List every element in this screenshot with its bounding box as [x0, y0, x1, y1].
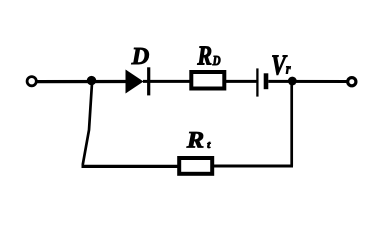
wire left terminal to diode: [37, 80, 126, 83]
node B junction dot: [288, 77, 297, 86]
battery Vr short thick plate: [264, 73, 269, 89]
resistor RD body: [191, 72, 224, 89]
diode D cathode bar: [147, 67, 150, 95]
svg-text:RD: RD: [197, 42, 221, 72]
svg-text:Vr: Vr: [271, 50, 291, 81]
battery Vr long plate: [256, 68, 258, 96]
wire left vertical branch: [83, 83, 92, 165]
left input terminal: [27, 77, 36, 86]
wire bottom left segment: [82, 165, 179, 168]
wire right vertical branch: [290, 83, 293, 166]
resistor Rt body: [179, 158, 212, 174]
node A junction dot: [87, 76, 96, 85]
wire resistor RD to battery: [225, 80, 257, 83]
diode D triangle: [126, 70, 144, 94]
wire battery to right terminal: [268, 80, 347, 83]
wire diode to resistor RD: [143, 80, 190, 83]
svg-text:D: D: [131, 43, 150, 70]
wire bottom right segment: [213, 165, 293, 168]
right output terminal: [348, 78, 356, 86]
svg-text:Rt: Rt: [186, 128, 212, 153]
